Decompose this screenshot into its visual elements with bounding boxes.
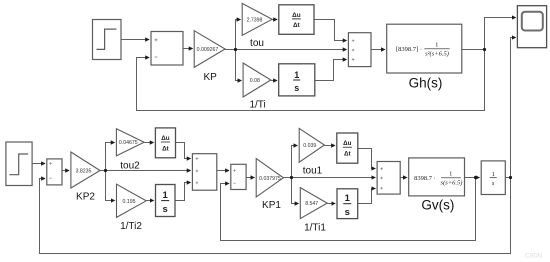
integrator block 1/s 2 xyxy=(156,185,176,217)
wire integrator output to sum3 input 3 xyxy=(315,60,347,81)
step source Step1 xyxy=(93,20,122,60)
sum block Sum2 xyxy=(47,159,62,185)
wire outer feedback integrator3 to sum2 minus input xyxy=(40,178,511,254)
gain tou xyxy=(242,3,272,49)
svg-text:0.039: 0.039 xyxy=(303,143,316,149)
wire KP output to sum3 input 2 xyxy=(225,49,346,51)
svg-text:8398.7 ·: 8398.7 · xyxy=(414,175,436,182)
derivative block du/dt 2 xyxy=(155,128,175,158)
gain KP xyxy=(194,31,225,83)
wire gain 1/Ti1 to integrator 1/s xyxy=(327,203,335,205)
gain tou1 xyxy=(299,128,324,176)
svg-text:[8398.7] ·: [8398.7] · xyxy=(396,46,422,53)
wire branch down to gain 1/Ti1 xyxy=(292,178,299,204)
wire step2 to sum2 xyxy=(32,163,45,165)
wire branch down to gain 1/Ti xyxy=(236,50,242,81)
svg-text:0.08: 0.08 xyxy=(250,78,260,84)
junction after KP1 xyxy=(290,176,293,179)
svg-text:s: s xyxy=(345,207,350,218)
svg-text:1: 1 xyxy=(345,193,351,204)
wire inner feedback Gv output to sum5 minus input xyxy=(221,178,476,241)
gain KP2 xyxy=(71,152,100,203)
svg-text:Δu: Δu xyxy=(161,135,170,142)
junction after KP2 xyxy=(104,169,107,172)
derivative block du/dt 3 xyxy=(337,133,358,163)
wire Gv output to integrator3 xyxy=(465,177,480,179)
svg-text:8.547: 8.547 xyxy=(305,201,318,207)
sum block Sum3 xyxy=(348,33,371,67)
sum block Sum4 xyxy=(192,154,216,191)
svg-text:Δt: Δt xyxy=(344,151,352,158)
svg-text:Gh(s): Gh(s) xyxy=(409,75,443,90)
svg-text:s(s+6.5): s(s+6.5) xyxy=(441,180,463,187)
derivative block du/dt 1 xyxy=(279,5,314,35)
svg-text:0.195: 0.195 xyxy=(123,199,136,205)
integrator block 1/s 3 xyxy=(337,189,358,219)
wire gain tou1 to du/dt3 block xyxy=(324,145,335,147)
svg-text:tou2: tou2 xyxy=(120,161,140,172)
wire integrator output to sum6 input 3 xyxy=(358,189,376,204)
svg-text:1/Ti: 1/Ti xyxy=(249,100,265,111)
svg-text:3.8235: 3.8235 xyxy=(76,169,92,175)
gain 1/Ti2 xyxy=(117,184,147,232)
svg-text:KP: KP xyxy=(204,72,218,83)
sum block Sum1 xyxy=(151,32,183,66)
svg-text:1/Ti1: 1/Ti1 xyxy=(304,223,326,234)
sum block Sum6 xyxy=(377,162,400,195)
svg-text:Δt: Δt xyxy=(162,146,170,153)
junction after integrator3 xyxy=(509,176,512,179)
svg-text:1: 1 xyxy=(435,41,438,48)
integrator block 1/s output xyxy=(481,161,505,195)
wire du/dt2 output to sum4 input 1 xyxy=(176,143,191,159)
svg-text:KP2: KP2 xyxy=(76,192,95,203)
wire sum6 to Gv(s) xyxy=(400,177,407,179)
wire sum1 to gain KP xyxy=(183,48,193,50)
svg-text:1: 1 xyxy=(163,190,169,201)
wire gain 1/Ti2 to integrator2 xyxy=(146,200,153,202)
wire gain tou to du/dt block xyxy=(272,19,277,21)
junction after KP xyxy=(234,48,237,51)
svg-text:Δu: Δu xyxy=(292,12,301,19)
wire du/dt output to sum3 input 1 xyxy=(314,20,347,41)
wire du/dt3 output to sum6 input 1 xyxy=(358,149,375,169)
sum block Sum5 xyxy=(231,164,246,189)
svg-text:2.7398: 2.7398 xyxy=(247,17,263,23)
wire Gh output to scope input 1 xyxy=(462,18,516,50)
transfer function Gv(s) xyxy=(409,158,465,213)
gain 1/Ti1 xyxy=(300,188,327,234)
wire gain 1/Ti to integrator 1/s xyxy=(271,80,277,82)
scope block xyxy=(517,6,546,48)
step source Step2 xyxy=(6,142,32,186)
svg-text:Δt: Δt xyxy=(293,22,301,29)
svg-text:s²(s+6.5): s²(s+6.5) xyxy=(425,51,449,58)
svg-text:CSDN: CSDN xyxy=(525,254,542,260)
svg-text:1: 1 xyxy=(492,171,495,178)
svg-text:1: 1 xyxy=(449,170,452,177)
wire sum3 to Gh(s) xyxy=(371,49,385,51)
wire step1 to sum1 xyxy=(121,39,149,41)
wire branch up to gain tou1 xyxy=(292,146,298,178)
wire branch up to gain tou xyxy=(236,20,241,50)
svg-text:tou: tou xyxy=(250,38,264,49)
wire sum2 to gain KP2 xyxy=(62,170,69,172)
wire KP2 output to sum4 input 2 xyxy=(100,170,191,172)
junction after Gv xyxy=(474,176,477,179)
wire integrator3 output riser to scope input 2 xyxy=(511,38,516,178)
wire feedback Gh output to sum1 minus input xyxy=(137,50,485,111)
wire sum4 to sum5 input 1 xyxy=(217,170,229,172)
wire branch up to gain tou2 xyxy=(106,143,115,171)
wire integrator3 output to riser junction xyxy=(505,177,510,179)
wire sum5 to gain KP1 xyxy=(246,177,254,179)
svg-text:1: 1 xyxy=(294,70,299,80)
watermark xyxy=(525,254,542,260)
svg-text:KP1: KP1 xyxy=(262,200,281,211)
wire KP1 output to sum6 input 2 xyxy=(283,177,375,179)
svg-text:s: s xyxy=(294,83,299,93)
wire gain tou2 to du/dt2 block xyxy=(144,142,153,144)
svg-text:Gv(s): Gv(s) xyxy=(421,198,454,213)
gain 1/Ti xyxy=(243,63,271,111)
svg-text:0.037975: 0.037975 xyxy=(259,176,281,182)
svg-text:0.04675: 0.04675 xyxy=(119,140,138,146)
gain tou2 xyxy=(116,129,144,172)
svg-text:Δu: Δu xyxy=(343,140,352,147)
gain KP1 xyxy=(256,159,283,211)
wire integrator2 output to sum4 input 3 xyxy=(175,183,191,201)
svg-text:1/Ti2: 1/Ti2 xyxy=(120,221,142,232)
junction after Gh xyxy=(483,48,486,51)
integrator block 1/s top xyxy=(279,64,315,96)
transfer function Gh(s) xyxy=(387,24,462,90)
svg-text:s: s xyxy=(163,204,168,215)
svg-text:0.009267: 0.009267 xyxy=(197,47,219,53)
wire branch down to gain 1/Ti2 xyxy=(106,171,115,201)
svg-text:tou1: tou1 xyxy=(303,166,323,177)
